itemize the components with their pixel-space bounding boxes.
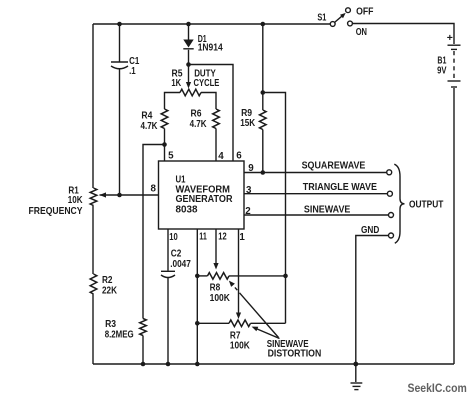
svg-text:2: 2 bbox=[245, 206, 251, 217]
svg-text:4.7K: 4.7K bbox=[141, 121, 158, 132]
wire duty junction to pin 6 bbox=[189, 65, 243, 162]
svg-text:OUTPUT: OUTPUT bbox=[409, 200, 443, 211]
svg-text:.0047: .0047 bbox=[170, 259, 191, 270]
svg-text:12: 12 bbox=[218, 231, 227, 242]
svg-text:FREQUENCY: FREQUENCY bbox=[29, 206, 83, 217]
wire switch to battery bbox=[353, 24, 455, 45]
potentiometer R7 100K bbox=[197, 320, 285, 351]
svg-text:R2: R2 bbox=[102, 275, 113, 286]
wire R9 mid bbox=[262, 93, 264, 111]
svg-text:10: 10 bbox=[169, 232, 178, 243]
node C1 top junction bbox=[117, 22, 122, 27]
wire GND output bbox=[356, 225, 389, 364]
svg-text:1: 1 bbox=[239, 232, 245, 243]
svg-text:100K: 100K bbox=[210, 293, 230, 304]
terminal sinewave bbox=[389, 213, 394, 218]
resistor R2 22K bbox=[90, 274, 117, 297]
wire pin 3 triangle wave bbox=[244, 182, 388, 196]
svg-text:100K: 100K bbox=[230, 340, 250, 351]
wire battery to bottom rail bbox=[453, 88, 455, 364]
terminal triangle wave bbox=[387, 191, 392, 196]
svg-text:8038: 8038 bbox=[176, 205, 199, 216]
svg-text:GENERATOR: GENERATOR bbox=[176, 194, 233, 205]
svg-text:R9: R9 bbox=[241, 108, 252, 119]
resistor R6 4.7K bbox=[190, 109, 220, 131]
resistor R3 8.2MEG bbox=[105, 319, 147, 341]
svg-text:1K: 1K bbox=[171, 78, 181, 89]
node C2 bottom bbox=[166, 362, 171, 367]
wire pin5 node to R3 bbox=[143, 145, 165, 319]
svg-text:11: 11 bbox=[199, 231, 207, 242]
svg-text:OFF: OFF bbox=[356, 6, 373, 17]
wire pin 12 wiper to R8 bbox=[213, 229, 227, 270]
node R3 bottom bbox=[141, 362, 146, 367]
label DUTY CYCLE bbox=[194, 68, 220, 89]
svg-text:SQUAREWAVE: SQUAREWAVE bbox=[302, 161, 366, 172]
label SeekIC.com bbox=[408, 383, 467, 395]
node R9 branch bbox=[261, 90, 266, 95]
wire C1 upper bbox=[119, 24, 121, 62]
svg-text:3: 3 bbox=[246, 185, 252, 196]
svg-text:TRIANGLE WAVE: TRIANGLE WAVE bbox=[303, 182, 378, 193]
op-amp U1 waveform generator 8038 bbox=[159, 161, 245, 229]
node pin11 bottom bbox=[195, 362, 200, 367]
node R7 left bbox=[195, 321, 200, 326]
svg-text:ON: ON bbox=[356, 27, 367, 38]
svg-text:8: 8 bbox=[151, 184, 157, 195]
node ground junction bbox=[353, 362, 358, 367]
wire D1 lower bbox=[188, 50, 190, 65]
wire pin 2 sinewave bbox=[244, 205, 389, 217]
wire pin 11 bbox=[197, 229, 207, 364]
svg-text:.1: .1 bbox=[129, 66, 136, 77]
svg-text:1N914: 1N914 bbox=[198, 43, 223, 54]
svg-text:SINEWAVE: SINEWAVE bbox=[304, 205, 351, 216]
wire R5 right to R6 bbox=[201, 93, 216, 110]
svg-text:8.2MEG: 8.2MEG bbox=[105, 330, 134, 341]
node R9 top bbox=[261, 22, 266, 27]
wire left rail lower bbox=[92, 294, 94, 364]
diode D1 1N914 bbox=[183, 34, 223, 54]
wire R5 left to R4 bbox=[165, 93, 181, 110]
svg-text:22K: 22K bbox=[102, 286, 117, 297]
wire right vertical line bbox=[263, 93, 286, 324]
node D1 top junction bbox=[186, 22, 191, 27]
svg-text:4.7K: 4.7K bbox=[190, 119, 207, 130]
node squarewave junction bbox=[261, 170, 266, 175]
resistor R4 4.7K bbox=[141, 109, 168, 132]
node R8 left bbox=[195, 274, 200, 279]
wire bottom rail bbox=[93, 363, 454, 365]
wire R3 to bottom rail bbox=[142, 336, 144, 365]
svg-text:9: 9 bbox=[248, 163, 254, 174]
wire pin 1 wiper to R7 bbox=[236, 229, 246, 319]
wire R6 to pin 4 bbox=[216, 129, 224, 163]
potentiometer R1 10K FREQUENCY bbox=[29, 186, 107, 218]
resistor R9 15K bbox=[240, 108, 266, 130]
svg-text:6: 6 bbox=[236, 151, 242, 162]
svg-text:DISTORTION: DISTORTION bbox=[268, 349, 322, 360]
capacitor C1 .1 bbox=[111, 56, 140, 77]
svg-text:R6: R6 bbox=[191, 109, 202, 120]
svg-text:9V: 9V bbox=[437, 66, 447, 77]
wire D1 upper bbox=[188, 24, 190, 40]
svg-text:GND: GND bbox=[361, 225, 379, 236]
node pin5 junction bbox=[162, 142, 167, 147]
svg-text:15K: 15K bbox=[240, 118, 255, 129]
svg-text:CYCLE: CYCLE bbox=[194, 78, 220, 89]
svg-text:10K: 10K bbox=[68, 195, 83, 206]
svg-text:SeekIC.com: SeekIC.com bbox=[408, 383, 467, 395]
node pin8 junction bbox=[117, 193, 122, 198]
svg-text:R3: R3 bbox=[105, 319, 116, 330]
wire R4 to pin5 node bbox=[164, 129, 166, 145]
svg-text:5: 5 bbox=[168, 151, 174, 162]
potentiometer R5 1K bbox=[171, 69, 201, 96]
wire pin 10 / capacitor C2 .0047 bbox=[161, 229, 191, 364]
svg-text:S1: S1 bbox=[317, 12, 326, 23]
terminal GND bbox=[389, 233, 394, 238]
wire R5 wiper bbox=[186, 65, 191, 89]
wire left rail upper bbox=[92, 24, 94, 188]
wire pin 9 squarewave bbox=[244, 161, 387, 174]
svg-text:R8: R8 bbox=[210, 283, 221, 294]
wire top rail bbox=[93, 23, 330, 25]
node duty junction bbox=[186, 62, 191, 67]
wire R9 to squarewave bbox=[262, 130, 264, 173]
svg-text:+: + bbox=[447, 32, 453, 44]
node R8 right bbox=[283, 274, 288, 279]
switch S1 bbox=[317, 6, 373, 38]
battery B1 9V bbox=[437, 32, 460, 87]
ground bbox=[351, 364, 363, 390]
wire R1 wiper to pin 8 bbox=[100, 184, 159, 196]
wire R9 upper bbox=[262, 24, 264, 93]
label SINEWAVE DISTORTION with callout arrows bbox=[229, 281, 321, 360]
wire C1 lower bbox=[119, 69, 121, 195]
terminal squarewave bbox=[387, 170, 392, 175]
potentiometer R8 100K bbox=[197, 273, 285, 305]
wire left rail mid bbox=[92, 206, 94, 275]
wire pin 5 bbox=[165, 145, 175, 162]
brace OUTPUT bbox=[394, 164, 443, 243]
